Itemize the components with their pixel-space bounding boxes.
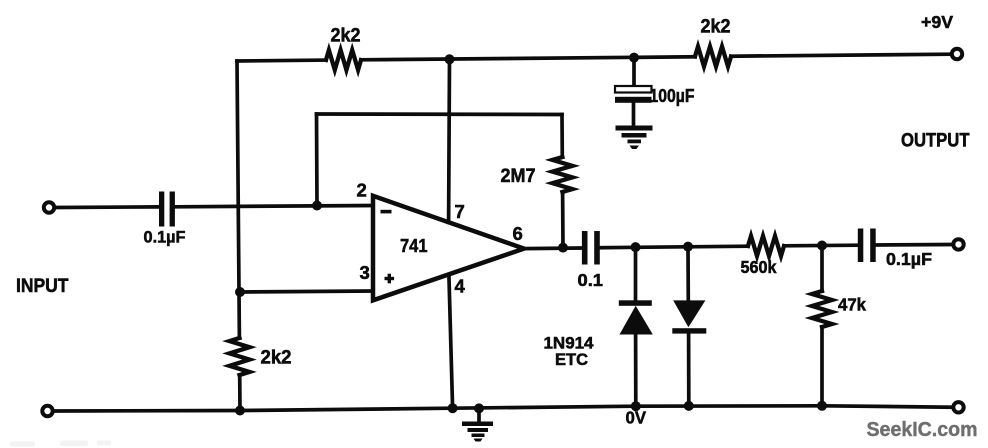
wire D2 lower stem — [687, 334, 691, 406]
wire 100uF stem lower to ground — [632, 103, 636, 126]
node dot pin2 input — [312, 201, 322, 211]
terminal bottom left — [42, 406, 52, 416]
svg-text:+9V: +9V — [921, 12, 953, 32]
node dot bottom rail / ground — [474, 403, 484, 413]
svg-text:2k2: 2k2 — [701, 17, 731, 38]
svg-text:2: 2 — [357, 180, 367, 201]
resistor R2 2k2 (supply decoupling) — [695, 47, 731, 67]
svg-text:2k2: 2k2 — [261, 348, 292, 369]
svg-text:0.1: 0.1 — [578, 270, 604, 290]
wire 560k to C3 — [784, 243, 858, 247]
node dot bottom rail / 47k — [817, 401, 827, 411]
svg-text:ETC: ETC — [555, 351, 588, 369]
resistor R6 47k — [812, 291, 832, 327]
ground at bottom rail — [462, 422, 493, 442]
op-amp U1 741 — [373, 196, 524, 300]
capacitor C2 0.1 plates — [582, 231, 588, 265]
wire C1 to pin 2 — [176, 206, 373, 207]
node dot bottom rail / D2 — [684, 401, 694, 411]
node dot output / 47k — [817, 241, 827, 251]
label plus input — [385, 274, 395, 284]
faint cropped caption remnants bottom-left — [10, 441, 111, 447]
capacitor C3 0.1uF plates — [858, 229, 864, 263]
wire D1 upper stem — [634, 247, 638, 300]
wire left bias line upper — [237, 61, 239, 338]
wire ground symbol stem — [477, 408, 481, 421]
wire D1 lower stem — [634, 335, 638, 407]
wire 100uF stem upper — [632, 58, 636, 86]
node dot bottom rail / bias — [235, 406, 245, 416]
wire op-amp output to C2 — [524, 246, 581, 250]
ground under 100uF — [616, 126, 653, 150]
svg-text:4: 4 — [455, 276, 466, 297]
wire 2M7 to output node — [561, 192, 565, 248]
resistor R4 2M7 (feedback) — [552, 157, 572, 192]
wire bottom rail — [55, 406, 952, 411]
terminal output — [953, 239, 963, 249]
svg-text:3: 3 — [360, 262, 370, 283]
svg-text:560k: 560k — [741, 257, 777, 277]
wire supply to pin 7 — [447, 59, 452, 222]
svg-text:INPUT: INPUT — [16, 276, 69, 297]
wire pin 4 to ground rail — [449, 275, 453, 408]
wire left bias line lower — [238, 375, 242, 411]
label minus input — [381, 210, 392, 214]
wire D2 upper stem — [686, 247, 690, 301]
capacitor C4 100uF top plate — [615, 86, 652, 93]
resistor R3 2k2 (bias to ground) — [230, 338, 250, 375]
wire 47k upper stem — [820, 246, 824, 292]
svg-text:SeekIC.com: SeekIC.com — [867, 419, 978, 441]
svg-text:6: 6 — [513, 223, 523, 244]
svg-text:0V: 0V — [626, 408, 647, 428]
wire C2 to 560k — [598, 246, 748, 248]
svg-text:47k: 47k — [838, 295, 866, 315]
capacitor C4 100uF bottom plate — [615, 97, 652, 103]
wire 47k lower stem — [820, 327, 824, 406]
wire input to C1 — [57, 205, 160, 209]
wire feedback vertical from pin2 node — [315, 114, 319, 206]
node dot output / D1 — [631, 242, 641, 252]
svg-text:2k2: 2k2 — [331, 26, 361, 47]
terminal input — [44, 202, 54, 212]
terminal +9V — [952, 49, 962, 59]
svg-text:0.1µF: 0.1µF — [144, 228, 186, 247]
capacitor C1 0.1uF plates — [159, 192, 164, 227]
resistor R1 2k2 (feedback/bias top-left) — [326, 50, 361, 70]
wire pin 3 to bias node — [240, 291, 373, 292]
wire feedback horizontal — [317, 112, 563, 116]
svg-text:100µF: 100µF — [650, 85, 695, 106]
resistor R5 560k — [748, 236, 784, 256]
node dot bottom rail / pin4 — [448, 403, 458, 413]
svg-text:OUTPUT: OUTPUT — [901, 131, 970, 152]
wire feedback down to 2M7 — [560, 115, 564, 158]
wire top rail left segment — [237, 58, 326, 63]
node dot bottom rail / D1 — [631, 401, 641, 411]
wire top rail middle segment — [361, 57, 695, 60]
wire C3 to output terminal — [876, 243, 952, 247]
node dot pin3 bias — [235, 287, 245, 297]
svg-text:0.1µF: 0.1µF — [886, 249, 932, 269]
terminal bottom right — [953, 402, 963, 412]
node dot top rail / pin7 — [445, 54, 455, 64]
diode D2 (cathode down) — [672, 300, 706, 333]
node dot top rail / 100uF — [629, 53, 639, 63]
wire top rail right segment to +9V — [731, 54, 951, 56]
svg-text:741: 741 — [400, 235, 428, 256]
svg-text:7: 7 — [455, 201, 465, 222]
svg-text:2M7: 2M7 — [501, 166, 536, 187]
node dot output / D2 — [683, 242, 693, 252]
svg-text:1N914: 1N914 — [544, 335, 595, 353]
node dot output / 2M7 — [558, 243, 568, 253]
diode D1 (cathode up) — [619, 300, 653, 334]
